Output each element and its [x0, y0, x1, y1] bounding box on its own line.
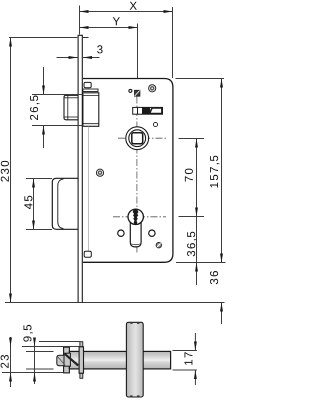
- latch body: [83, 93, 99, 127]
- slider bar: [133, 107, 163, 114]
- dimension Y line: [80, 26, 138, 29]
- dimension 230 extension top: [9, 37, 77, 39]
- spindle horizontal centerline: [118, 137, 166, 139]
- label 36: [210, 271, 218, 284]
- label 157,5: [210, 156, 219, 188]
- spindle screw ring: [153, 122, 157, 126]
- faceplate: [78, 35, 83, 303]
- label Y: [113, 17, 120, 25]
- label 3: [97, 45, 102, 53]
- dimension 17 extensions: [173, 350, 197, 352]
- plan faceplate: [64, 347, 70, 373]
- extension spindle axis right: [179, 138, 205, 140]
- screw hole left of cylinder: [118, 230, 124, 236]
- cylinder circle: [128, 209, 143, 224]
- slotted screw bottom right: [156, 243, 161, 248]
- extension line faceplate face up: [79, 6, 81, 35]
- label 26,5: [30, 96, 40, 120]
- small square bottom: [84, 251, 91, 257]
- bottom baseline extension: [5, 302, 225, 304]
- internal plate edge: [87, 127, 89, 252]
- dimension 70 and 36,5 chain line: [195, 139, 198, 286]
- torx screw left: [96, 169, 103, 176]
- dimension 26,5 line (outside arrows): [42, 67, 45, 148]
- label 23: [1, 355, 9, 368]
- label 9,5: [23, 325, 33, 342]
- dimension X line: [80, 10, 173, 13]
- label 17: [184, 352, 192, 365]
- cylinder stem: [130, 213, 141, 247]
- plan collar bracket: [79, 347, 83, 373]
- dimension 23 line (outside arrows): [9, 337, 12, 387]
- extension line case right edge up: [172, 7, 174, 78]
- extension line spindle axis up: [137, 24, 139, 79]
- dimension 3 (faceplate thickness): [57, 56, 100, 59]
- label 45: [24, 196, 32, 209]
- cylinder horizontal centerline: [113, 216, 166, 218]
- torx screw top right: [149, 85, 156, 92]
- faceplate top rear stub: [83, 37, 89, 39]
- dimension 9,5 extensions: [39, 341, 80, 343]
- latch guide band: [83, 89, 98, 92]
- dimension 157,5 line: [220, 79, 223, 263]
- plan collar top nub: [80, 342, 83, 347]
- extension case bottom right: [176, 262, 226, 264]
- dimension 45 line: [32, 179, 35, 230]
- dimension 45 extensions: [26, 178, 52, 180]
- extension case top right: [176, 78, 225, 80]
- dimension 17 line (outside arrows): [194, 333, 197, 385]
- plan collar bottom nub: [80, 373, 83, 378]
- label 36,5: [187, 232, 197, 257]
- vertical centerline spindle-cylinder: [136, 97, 138, 253]
- dimension 26,5 extensions: [32, 94, 83, 96]
- dimension 36 line (outside arrows): [220, 303, 223, 325]
- label 230: [1, 161, 9, 182]
- label 70: [185, 169, 193, 182]
- plan case bar: [69, 351, 170, 369]
- plan cylinder cross: [126, 322, 143, 397]
- keyway: [133, 209, 139, 224]
- label X: [130, 2, 137, 10]
- small square top: [84, 82, 91, 87]
- dimension 230 line: [9, 38, 12, 303]
- dimension 9,5 line: [33, 338, 36, 385]
- deadbolt: [52, 178, 78, 229]
- plan latch bolt: [57, 353, 78, 366]
- small circle detail: [129, 89, 132, 92]
- screw hole right of cylinder: [149, 230, 155, 236]
- extension cylinder axis right: [179, 216, 205, 218]
- small square with diagonal: [135, 90, 140, 96]
- lock case outline: [83, 79, 173, 263]
- dimension 23 extension bottom: [2, 372, 64, 374]
- spindle hub: [126, 127, 149, 150]
- latch bolt: [64, 95, 78, 120]
